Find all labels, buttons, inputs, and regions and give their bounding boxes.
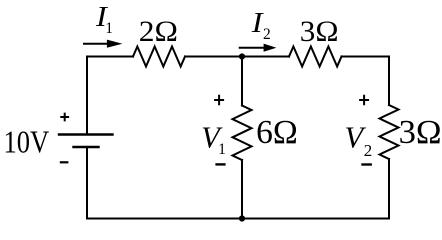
svg-text:3Ω: 3Ω xyxy=(300,15,339,48)
svg-text:2Ω: 2Ω xyxy=(139,15,178,48)
svg-text:2: 2 xyxy=(364,141,373,160)
svg-text:1: 1 xyxy=(105,20,113,37)
svg-text:3Ω: 3Ω xyxy=(399,115,442,151)
svg-text:2: 2 xyxy=(263,26,271,43)
svg-text:1: 1 xyxy=(218,141,226,158)
svg-text:6Ω: 6Ω xyxy=(256,114,298,151)
svg-text:10V: 10V xyxy=(3,125,49,160)
